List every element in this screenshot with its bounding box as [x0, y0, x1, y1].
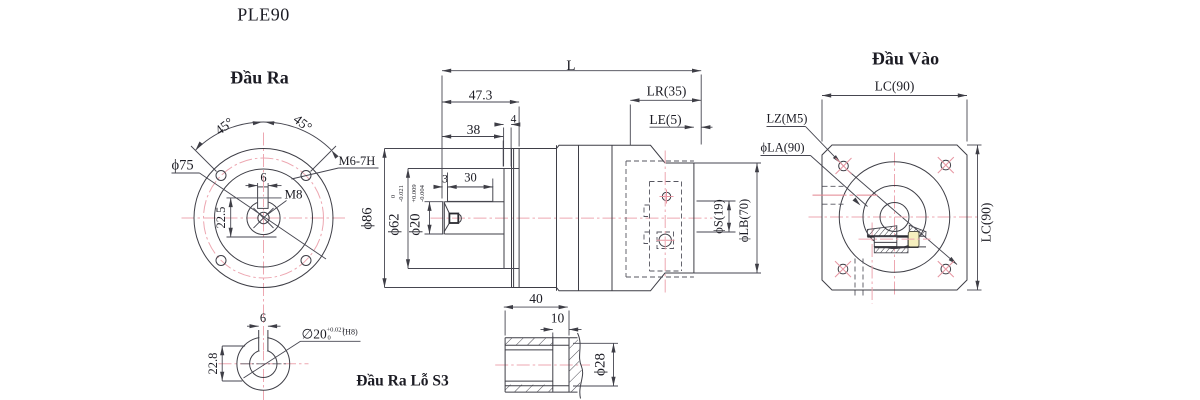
bore line bottom inner [505, 380, 553, 382]
svg-text:-0.004: -0.004 [419, 184, 426, 202]
shaft tip bold square [449, 214, 458, 224]
bore line bottom outer [505, 385, 569, 387]
clamp hatched wedge left [867, 226, 896, 237]
input bolt hole top-right [941, 160, 951, 170]
screw hole lower pink cross [657, 239, 675, 241]
input bore circle [880, 203, 909, 232]
svg-text:30: 30 [464, 171, 477, 185]
shaft tip dome [458, 214, 461, 223]
output shaft hub circle [247, 201, 280, 234]
dimension phi20 with tolerance [429, 202, 431, 234]
svg-text:6: 6 [260, 311, 266, 325]
output boss phi62 top [504, 168, 512, 170]
input flange square with chamfered corners [822, 145, 967, 290]
phi75 underline [172, 172, 200, 174]
dimension LC(90) right [977, 145, 979, 290]
shaft left face [442, 202, 444, 234]
shaft keyway rectangle [448, 187, 493, 202]
section view wavy break line [578, 333, 583, 399]
bore end wall left [552, 337, 554, 392]
hidden notch upper [644, 205, 650, 217]
hidden keyway slot line bottom [823, 203, 845, 205]
svg-text:LR(35): LR(35) [647, 84, 687, 99]
shaft top line [444, 201, 504, 203]
output boss phi62 bottom [504, 268, 512, 270]
svg-text:ϕ20: ϕ20 [408, 213, 424, 235]
body section line 1 [578, 145, 580, 290]
svg-text:LC(90): LC(90) [875, 79, 915, 94]
S3 keyway slot line left [258, 330, 260, 351]
leader line phi75 diagonal [200, 173, 327, 259]
45deg dimension arc left [196, 122, 264, 150]
hidden bore outer rect [625, 161, 627, 277]
svg-text:LC(90): LC(90) [979, 203, 994, 243]
bolt circle (pink dash-dot) [204, 158, 324, 278]
svg-text:+0.009: +0.009 [411, 184, 418, 202]
svg-text:40: 40 [529, 291, 543, 306]
svg-text:22.8: 22.8 [206, 353, 220, 375]
clamp pink dash-dot through screw [859, 238, 931, 240]
section view outer rect top [505, 337, 577, 339]
svg-text:Đầu Ra Lỗ S3: Đầu Ra Lỗ S3 [356, 373, 449, 390]
S3 bore circle [250, 350, 277, 377]
input view pink vertical centerline [894, 153, 896, 298]
dia20 leader diagonal [244, 341, 301, 378]
dimension phiLB(70) [756, 163, 758, 273]
center cross X stroke 2 [254, 208, 274, 228]
dimension phi86 [384, 149, 386, 288]
svg-text:47.3: 47.3 [469, 88, 493, 103]
label M8 leader [268, 201, 287, 215]
input bolt hole top-left [839, 161, 849, 171]
svg-text:ϕ86: ϕ86 [360, 207, 376, 229]
screw hole circle lower [659, 234, 671, 246]
svg-text:0: 0 [328, 335, 331, 342]
svg-text:LE(5): LE(5) [649, 112, 681, 127]
input middle circle [863, 186, 926, 249]
phiLA(90) leader [811, 156, 868, 207]
dimension phi62 with tolerance [407, 169, 409, 269]
top wall hatch band [505, 338, 553, 346]
side view pink horizontal centerline [431, 217, 713, 219]
clamp hatched wedge right [909, 225, 926, 236]
hidden lines below square [854, 259, 856, 296]
input pilot circle (phi70) [839, 162, 950, 273]
side view pink vertical centerline through screw [664, 151, 666, 296]
dimension phiS(19) [728, 201, 730, 232]
45deg arc arrowheads [196, 142, 203, 151]
svg-text:ϕ62: ϕ62 [387, 213, 403, 235]
svg-text:∅20: ∅20 [302, 327, 328, 342]
flange plate right face [518, 149, 520, 288]
input bolt hole bottom-left [838, 264, 848, 274]
section view outer rect bottom [505, 391, 577, 393]
svg-text:ϕ28: ϕ28 [593, 353, 609, 376]
S3 outer circle [237, 337, 290, 390]
svg-text:ϕ75: ϕ75 [172, 158, 194, 174]
clamp bold bottom line [874, 246, 918, 248]
svg-text:Đầu Vào: Đầu Vào [872, 49, 939, 69]
screw hole upper pink cross [660, 196, 674, 198]
svg-text:22.5: 22.5 [214, 207, 228, 229]
svg-text:ϕLA(90): ϕLA(90) [761, 141, 805, 155]
body bottom edge [557, 273, 694, 291]
svg-text:PLE90: PLE90 [237, 5, 290, 25]
clamp lower hatch [874, 248, 908, 253]
45deg dimension arc right [264, 122, 332, 150]
center hole circle [258, 212, 269, 223]
svg-text:ϕLB(70): ϕLB(70) [737, 199, 751, 242]
screw hole circle upper [662, 192, 670, 200]
body section line 2 [611, 145, 613, 290]
svg-text:0: 0 [390, 195, 397, 198]
dimension 22.8 [221, 346, 223, 381]
keyway slot on hub [258, 187, 269, 209]
svg-text:ϕS(19): ϕS(19) [712, 199, 726, 233]
S3 slot centerline overlay [263, 328, 265, 354]
dimension phi28 [613, 343, 615, 386]
M6-7H underline [339, 167, 379, 169]
input bolt hole bottom-right [941, 264, 951, 274]
hidden notch lower [644, 232, 650, 244]
flange top edge [512, 148, 557, 150]
LZ(M5) leader long diagonal [806, 127, 845, 167]
shaft bottom line [444, 233, 504, 235]
shaft tip cone bottom [444, 223, 449, 232]
M6-7H leader [292, 168, 339, 179]
body right face [693, 163, 695, 273]
svg-text:(H8): (H8) [343, 328, 358, 337]
bore line top outer [505, 344, 569, 346]
svg-text:LZ(M5): LZ(M5) [767, 112, 808, 126]
svg-text:M8: M8 [285, 187, 303, 202]
section view pink centerline [495, 364, 590, 366]
radial extension line upper-left [191, 146, 217, 172]
center cross X stroke 1 [254, 208, 274, 228]
input view pink horizontal centerline [809, 216, 979, 218]
clamp pink vertical centerline [871, 223, 873, 304]
svg-text:10: 10 [551, 311, 565, 326]
output flange outer circle [194, 149, 333, 288]
bore end wall right [568, 338, 570, 392]
dimension 22.5 [230, 198, 232, 237]
svg-text:45°: 45° [291, 111, 315, 134]
S3 keyway slot line right [267, 330, 269, 351]
svg-text:Đầu Ra: Đầu Ra [230, 68, 289, 88]
body top edge [557, 145, 694, 163]
flange plate mid line [513, 149, 515, 288]
svg-text:L: L [566, 58, 575, 74]
bottom wall hatch band [505, 385, 553, 393]
output flange inner circle [215, 169, 313, 267]
screw hole lower dashed square [657, 232, 674, 249]
bolt hole top-left [216, 171, 226, 181]
section view left face [504, 338, 506, 392]
body left face [556, 145, 558, 290]
svg-text:6: 6 [260, 171, 266, 185]
flange bottom edge [512, 287, 557, 289]
flange plate left face [511, 149, 513, 288]
svg-text:38: 38 [467, 122, 481, 137]
bore line top inner [505, 349, 553, 351]
keyway slot red centerline [813, 194, 878, 196]
clamp yellow nut [908, 232, 919, 247]
S3 view dark dash-dot centerline overlay [241, 363, 287, 365]
keyway centerline overlay [263, 184, 265, 211]
S3 view pink horizontal centerline [219, 363, 309, 365]
svg-text:-0.021: -0.021 [398, 185, 405, 202]
bolt hole bottom-right [301, 256, 311, 266]
dia20 underline [301, 340, 361, 342]
clamp screw box [874, 237, 897, 247]
hidden keyway slot line top [823, 185, 845, 187]
hidden bore inner rect [649, 182, 651, 272]
clamp bold top line [867, 235, 908, 237]
output view pink horizontal centerline [182, 217, 346, 219]
shaft tip cone top [444, 203, 449, 214]
output view pink vertical centerline [263, 133, 265, 400]
output boss left face [503, 169, 505, 269]
svg-text:M6-7H: M6-7H [339, 154, 376, 168]
S3 keyway slot white channel [259, 330, 267, 351]
solid end hatch block [569, 338, 582, 392]
bolt hole bottom-left [216, 256, 226, 266]
radial extension line upper-right [311, 146, 337, 172]
bolt hole top-right [301, 171, 311, 181]
